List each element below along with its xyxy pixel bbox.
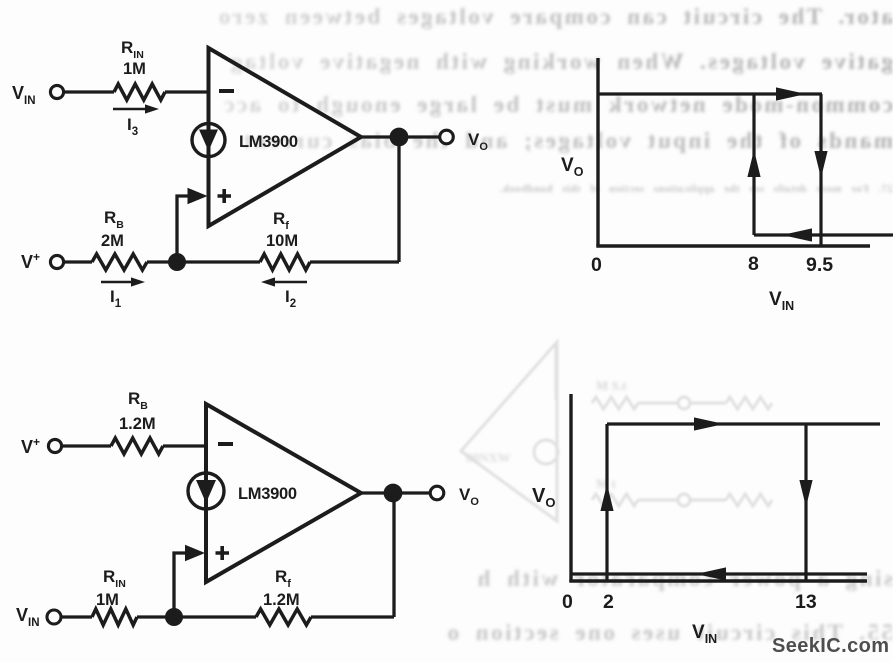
svg-text:sing a power comparator with h: sing a power comparator with h — [475, 566, 893, 591]
svg-text:0: 0 — [591, 254, 602, 276]
resistor R_IN 1M (bottom) — [92, 609, 137, 625]
arrowhead into + input (bottom) — [185, 545, 205, 562]
ghost artifacts — [461, 342, 772, 521]
svg-text:8: 8 — [748, 253, 759, 275]
svg-text:M S.t: M S.t — [596, 378, 627, 393]
current arrow I2 — [261, 277, 307, 286]
wire node up to + input (bottom) — [174, 553, 188, 617]
wire V+ to R_B (bottom) — [62, 444, 111, 447]
graph 1 arrow right (high) — [776, 87, 806, 100]
label R_f — [273, 209, 289, 232]
label I3 — [127, 115, 138, 138]
svg-text:1.2M: 1.2M — [263, 591, 300, 609]
wire node up to + input — [177, 196, 190, 262]
graph 1 arrow up — [747, 150, 760, 177]
terminal Vo output — [440, 130, 454, 144]
svg-text:13: 13 — [795, 591, 817, 613]
label Vin (top circuit) — [12, 83, 36, 107]
label R_IN — [121, 38, 144, 61]
svg-text:2: 2 — [603, 591, 614, 613]
terminal V+ input (bottom) — [48, 439, 61, 452]
graph 1 label Vo — [561, 155, 584, 179]
graph 2 arrow left (low) — [696, 567, 726, 580]
terminal Vo output (bottom) — [430, 486, 444, 500]
svg-text:2M: 2M — [101, 232, 124, 250]
resistor R_f 10M — [260, 254, 310, 270]
resistor R_B 2M — [92, 254, 147, 270]
faint page text — [216, 4, 893, 645]
svg-text:SeekIC.com: SeekIC.com — [772, 635, 889, 657]
node junction (+ input tie) — [168, 253, 186, 271]
svg-text:0: 0 — [562, 591, 573, 613]
wire R_B to op-amp minus (bottom) — [163, 444, 206, 447]
wire Vin to R_IN — [64, 90, 114, 93]
graph 2 arrow right (high) — [694, 417, 724, 430]
wire feedback riser — [397, 137, 400, 262]
svg-text:LM3900: LM3900 — [239, 133, 298, 151]
graph 2 falling edge at 13 — [804, 424, 807, 582]
graph 2 y-axis — [569, 394, 572, 582]
graph 2 low level line — [571, 572, 867, 575]
graph 2 x-axis — [569, 579, 867, 582]
wire R_f to feedback riser (bottom) — [311, 615, 394, 618]
wire Vin to R_IN (bottom) — [61, 615, 92, 618]
label R_B — [104, 208, 124, 231]
svg-text:1.2M: 1.2M — [119, 415, 156, 433]
graph 1 high level line — [598, 92, 822, 95]
wire op-amp output — [361, 135, 444, 138]
current arrow I3 — [113, 104, 159, 113]
graph 2 rising edge at 2 — [605, 424, 608, 582]
current source symbol (inside U1) — [192, 124, 225, 157]
graph 1 y-axis — [596, 58, 599, 246]
svg-text:27. For more details see the a: 27. For more details see the application… — [499, 183, 893, 195]
svg-text:LM3900: LM3900 — [238, 485, 297, 503]
op-amp U1 triangle — [209, 48, 362, 226]
current source symbol (inside U2) — [188, 473, 224, 509]
wire R_f to feedback riser — [310, 260, 399, 263]
graph 1 label Vin — [769, 289, 794, 313]
label R_IN (bottom) — [103, 567, 126, 590]
svg-text:9.5: 9.5 — [806, 254, 833, 276]
resistor R_B 1.2M — [111, 438, 163, 454]
svg-text:ator. The circuit can compare: ator. The circuit can compare voltages b… — [216, 4, 893, 29]
label Vo (bottom circuit) — [459, 485, 479, 508]
node junction (bottom + input tie) — [165, 608, 183, 626]
label I2 — [285, 287, 296, 310]
wire feedback riser (bottom) — [392, 493, 395, 617]
svg-text:00NXW: 00NXW — [466, 450, 511, 465]
graph 1 arrow left (low) — [782, 228, 812, 241]
svg-text:gative voltages. When working: gative voltages. When working with negat… — [228, 49, 893, 74]
label R_f (bottom) — [275, 567, 291, 590]
label V+ (top circuit) — [21, 250, 40, 272]
wire R_IN to R_f (bottom, through node) — [137, 615, 256, 618]
label R_B (bottom) — [128, 389, 148, 412]
current arrow I1 — [101, 277, 145, 286]
minus sign (inverting input) — [219, 89, 234, 93]
wire R_B to R_f (through node) — [147, 260, 260, 263]
plus sign (non-inverting input) — [218, 189, 232, 203]
graph 2 arrow down — [799, 480, 812, 507]
node output junction (bottom) — [384, 484, 403, 503]
graph 1 rising edge at 8 — [752, 94, 755, 235]
wire R_IN to op-amp minus input — [165, 90, 209, 93]
graph 2 arrow up — [600, 484, 613, 511]
resistor R_IN 1M — [114, 84, 165, 100]
svg-text:1M: 1M — [123, 60, 146, 78]
graph 2 label Vo — [532, 485, 555, 510]
terminal Vin input — [50, 85, 63, 98]
graph 1 low level line — [754, 233, 893, 236]
plus sign (bottom op-amp) — [216, 546, 230, 560]
terminal V+ input — [50, 255, 63, 268]
graph 1 arrow down — [814, 151, 827, 178]
terminal Vin input (bottom) — [47, 610, 61, 624]
label V+ (bottom circuit) — [21, 435, 40, 457]
graph 2 high level line — [607, 422, 880, 425]
resistor R_f 1.2M (bottom) — [256, 609, 311, 625]
arrowhead into + input — [188, 188, 208, 205]
node output junction — [390, 128, 409, 147]
wire V+ to R_B — [64, 260, 92, 263]
label Vin (bottom circuit) — [16, 605, 40, 629]
svg-text:1M: 1M — [96, 591, 119, 609]
graph 1 falling edge at 9.5 — [819, 94, 822, 246]
graph 1 x-axis — [596, 244, 870, 247]
label Vo (top circuit) — [468, 130, 488, 153]
op-amp U2 triangle — [206, 404, 361, 582]
minus sign (bottom op-amp) — [218, 442, 233, 446]
label I1 — [110, 287, 122, 310]
svg-text:10M: 10M — [266, 232, 298, 250]
graph 2 label Vin — [692, 622, 717, 646]
wire op-amp output (bottom) — [361, 491, 430, 494]
